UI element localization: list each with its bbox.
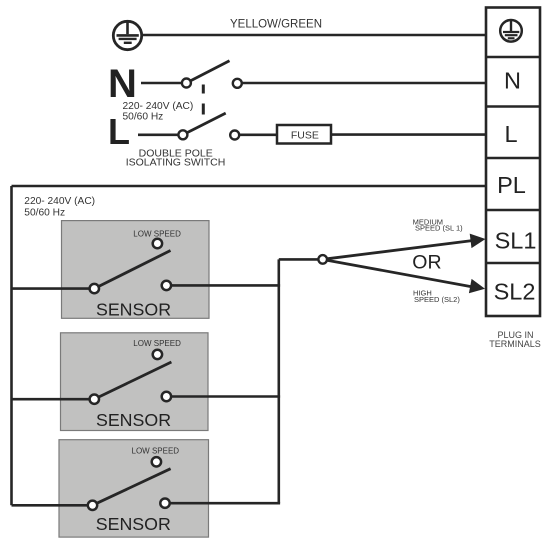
svg-text:ISOLATING SWITCH: ISOLATING SWITCH (126, 156, 226, 168)
sensor S1 common contact (90, 284, 99, 293)
svg-text:SENSOR: SENSOR (96, 300, 171, 320)
svg-text:PL: PL (497, 172, 526, 198)
sensor S1 output contact (162, 281, 171, 290)
wire left bus to S1 common (12, 287, 90, 290)
wire N to switch (141, 82, 182, 85)
svg-text:L: L (108, 111, 130, 152)
sensor S3 output contact (160, 499, 169, 508)
node (speed select) (318, 255, 327, 264)
label HIGH SPEED (SL2) (413, 289, 460, 304)
sensor S2 common contact (90, 395, 99, 404)
label PLUG IN TERMINALS (489, 330, 541, 349)
wire S3 output to right bus (170, 502, 280, 505)
wire fuse to terminal L (331, 133, 486, 136)
svg-text:LOW SPEED: LOW SPEED (133, 339, 181, 348)
sensor S3 (box) (59, 440, 209, 537)
svg-text:FUSE: FUSE (291, 130, 319, 142)
wire node to SL1 (medium speed) (327, 241, 473, 259)
terminal N (486, 68, 540, 107)
switch pole L: left contact (178, 130, 187, 139)
svg-text:SL1: SL1 (495, 227, 537, 253)
switch pole N: blade (190, 61, 229, 81)
switch pole L: blade (187, 113, 226, 133)
svg-text:220- 240V (AC): 220- 240V (AC) (24, 196, 95, 207)
wire L switch to fuse (239, 134, 277, 137)
sensor S2 (box) (61, 333, 209, 431)
earth symbol (protective earth, left) (113, 21, 141, 49)
wire left bus (10, 186, 13, 505)
wire S1 output to right bus (171, 284, 280, 287)
svg-text:SPEED (SL2): SPEED (SL2) (414, 295, 460, 304)
svg-text:LOW SPEED: LOW SPEED (133, 229, 181, 238)
label DOUBLE POLE ISOLATING SWITCH (126, 147, 226, 168)
svg-text:N: N (504, 68, 521, 94)
wire right bus (277, 259, 280, 503)
wire L to switch (138, 134, 178, 137)
terminal SL1 (486, 227, 540, 263)
svg-text:L: L (504, 121, 517, 147)
svg-text:SPEED (SL 1): SPEED (SL 1) (415, 224, 463, 233)
sensor S1 low-speed contact (153, 239, 162, 248)
sensor S2 low-speed contact (153, 350, 162, 359)
svg-text:TERMINALS: TERMINALS (489, 339, 541, 349)
svg-text:SENSOR: SENSOR (96, 514, 171, 534)
svg-text:LOW SPEED: LOW SPEED (132, 446, 180, 455)
wire left bus to S3 common (12, 504, 88, 507)
svg-text:SL2: SL2 (494, 278, 536, 304)
terminal L (486, 121, 540, 158)
wire right bus to node (279, 258, 319, 261)
terminal PL (486, 172, 540, 210)
switch pole N: right contact (233, 79, 242, 88)
sensor S2 output contact (162, 392, 171, 401)
wire N switch to terminal N (242, 82, 486, 85)
fuse F1 (277, 125, 331, 144)
terminal block outline (486, 8, 540, 317)
svg-text:SENSOR: SENSOR (96, 410, 171, 430)
sensor S2 blade (99, 362, 172, 397)
sensor S3 blade (97, 469, 171, 504)
label MEDIUM SPEED (SL 1) (413, 218, 464, 233)
wire left bus to S2 common (12, 398, 90, 401)
mechanical link (dashed) of double pole switch (202, 85, 205, 115)
sensor S1 blade (99, 251, 171, 287)
switch pole N: left contact (182, 79, 191, 88)
svg-text:YELLOW/GREEN: YELLOW/GREEN (230, 19, 322, 31)
terminal PE earth symbol (500, 20, 522, 42)
sensor S3 low-speed contact (152, 457, 161, 466)
wire S2 output to right bus (171, 395, 280, 398)
arrowhead SL2 (469, 279, 485, 293)
sensor S3 common contact (88, 501, 97, 510)
terminal SL2 (494, 278, 536, 304)
svg-text:220- 240V (AC): 220- 240V (AC) (123, 101, 194, 112)
svg-text:N: N (108, 62, 137, 106)
switch pole L: right contact (230, 131, 239, 140)
sensor S1 (box) (62, 221, 210, 319)
wire PL to lower circuit (top edge) (12, 185, 487, 188)
arrowhead SL1 (470, 234, 486, 249)
wire node to SL2 (high speed) (327, 260, 473, 287)
svg-text:50/60 Hz: 50/60 Hz (24, 207, 65, 218)
wire earth to terminal block (142, 34, 486, 37)
svg-text:OR: OR (412, 252, 441, 274)
terminal PE (earth) box (486, 56, 540, 59)
